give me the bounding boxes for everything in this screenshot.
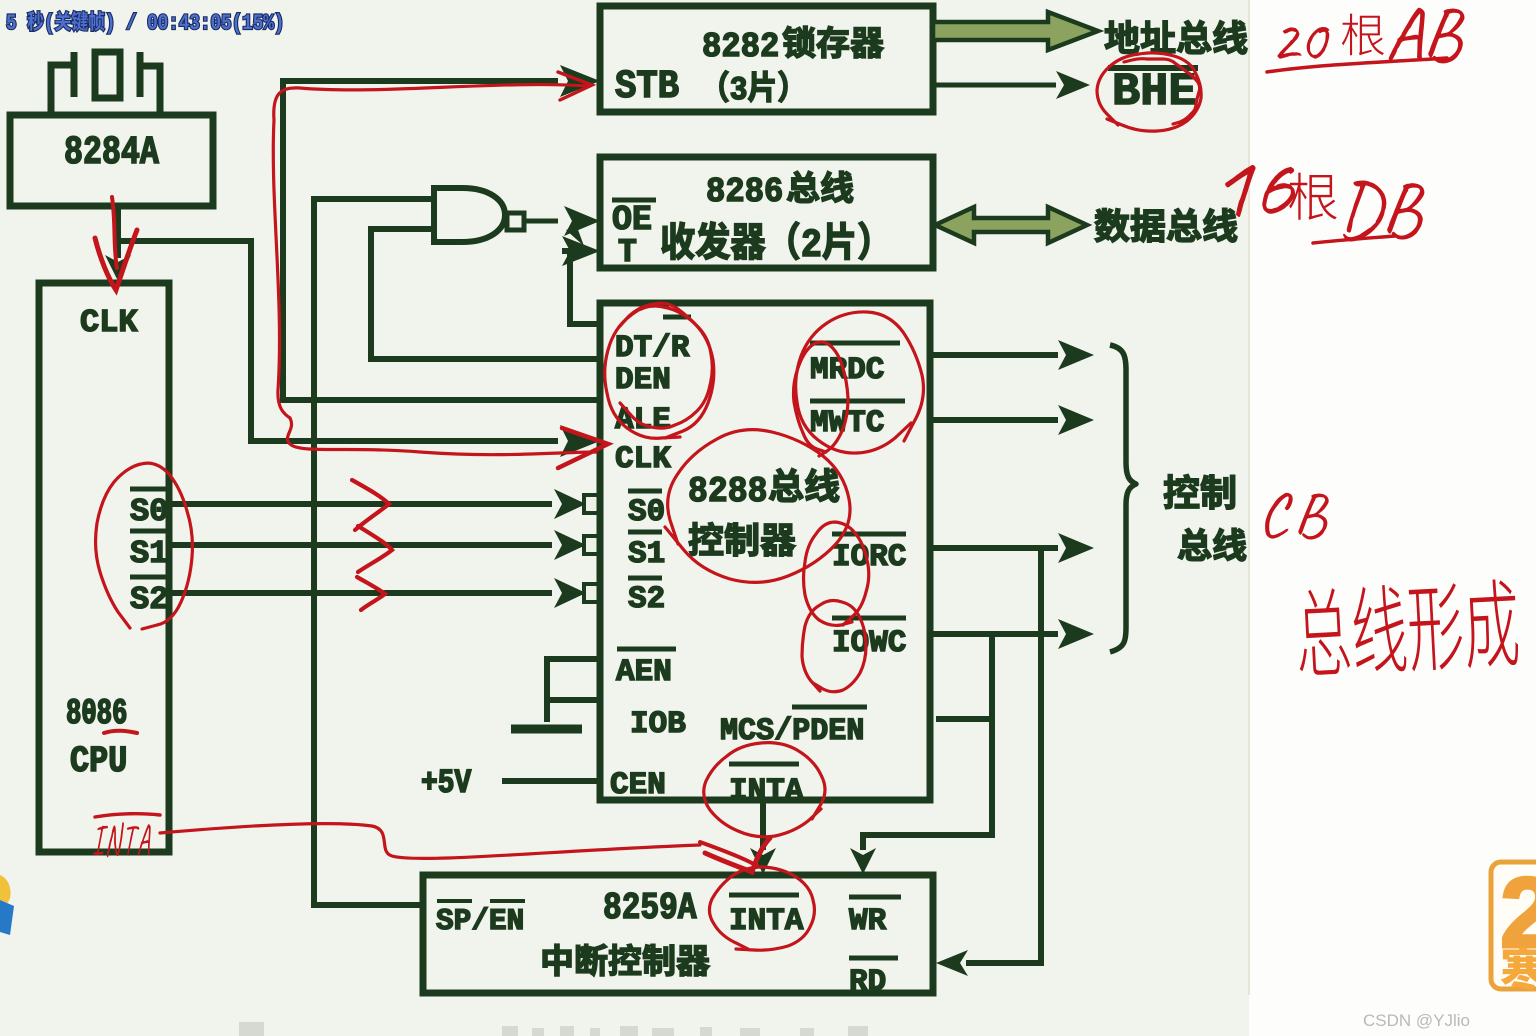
red circle CPU status pins bbox=[96, 463, 193, 629]
clock generator U1 8284A box bbox=[10, 115, 213, 206]
pin label S1 (8288) bbox=[628, 532, 664, 562]
red chevron S0 bbox=[352, 480, 389, 530]
label 8288总线 bbox=[690, 468, 839, 502]
wire DT/R to T bbox=[562, 227, 600, 324]
wire CLK net 8284A to 8288 CLK bbox=[118, 241, 600, 457]
red line INTA to arrow bbox=[160, 824, 700, 859]
wire S0 net bbox=[169, 489, 599, 519]
pin label S0 (CPU) bbox=[130, 489, 168, 520]
pin label S2 (8288) bbox=[628, 578, 663, 607]
red circle around BHE bbox=[1097, 53, 1201, 131]
label 8086 bbox=[67, 699, 126, 724]
pin label T bbox=[619, 239, 636, 261]
pin label SP/EN bbox=[437, 901, 526, 929]
label 收发器(2片) bbox=[662, 222, 869, 260]
wire gate output to OE bbox=[524, 206, 600, 236]
label 8286总线 bbox=[708, 171, 853, 203]
pin label INTA (8288) bbox=[729, 764, 803, 799]
wire IORC out bbox=[933, 533, 1094, 563]
label 中断控制器 bbox=[543, 944, 710, 976]
pin label DT/R bbox=[617, 317, 691, 356]
wire ALE to STB net bbox=[283, 65, 600, 400]
wire MCS/PDEN stub bbox=[936, 716, 992, 722]
AND gate U5 bbox=[434, 188, 524, 242]
pin label CLK (8288) bbox=[616, 446, 671, 467]
label CPU bbox=[71, 746, 125, 771]
transceiver U4 8286 box bbox=[600, 157, 933, 268]
CSDN watermark bbox=[1363, 1011, 1470, 1030]
latch U3 8282 box bbox=[600, 6, 933, 112]
pin label S0 (8288) bbox=[628, 491, 663, 520]
label BHE bbox=[1108, 68, 1198, 104]
label 8284A bbox=[66, 136, 159, 163]
wire INTA net bbox=[750, 800, 776, 874]
pin label INTA (8259) bbox=[729, 895, 803, 929]
address bus arrow bbox=[933, 12, 1098, 50]
pin label ALE bbox=[615, 408, 670, 428]
red chevron S1 bbox=[358, 526, 392, 572]
red circle IORC bbox=[804, 522, 869, 625]
label 控制 bbox=[1164, 474, 1235, 509]
red circle 8288 text bbox=[665, 430, 850, 583]
red underline 8086 bbox=[104, 731, 137, 733]
wire IOWC to WR bbox=[850, 634, 992, 874]
pin label MWTC bbox=[810, 401, 905, 431]
red circle DT/R DEN ALE bbox=[605, 303, 714, 438]
pin label S2 (CPU) bbox=[130, 577, 168, 608]
wire +5V to CEN bbox=[502, 778, 597, 784]
label (3片) bbox=[720, 71, 788, 103]
pin label MRDC bbox=[810, 343, 900, 378]
pin label IORC bbox=[832, 534, 906, 565]
red circle IOWC bbox=[802, 601, 866, 692]
wire IORC to RD bbox=[936, 548, 1041, 976]
label 数据总线 bbox=[1095, 208, 1237, 242]
pin label RD bbox=[849, 958, 898, 990]
orange logo box bbox=[1491, 862, 1536, 991]
pin label AEN bbox=[616, 649, 676, 680]
bottom caption remnant bbox=[239, 1022, 868, 1036]
red arrow 8284A to CPU bbox=[95, 197, 137, 290]
wire IOWC out bbox=[933, 619, 1094, 649]
pin label CEN bbox=[611, 772, 664, 793]
pin label CLK (CPU) bbox=[81, 310, 137, 332]
pin label IOB bbox=[632, 711, 685, 732]
pin label IOWC bbox=[832, 618, 906, 651]
wire S1 net bbox=[169, 530, 599, 560]
label 地址总线 bbox=[1105, 20, 1247, 54]
red arrow into CLK pin bbox=[558, 428, 608, 468]
red note 20根 AB bbox=[1267, 8, 1465, 72]
clock waveform symbol bbox=[51, 52, 160, 114]
pin label S1 (CPU) bbox=[130, 531, 168, 562]
label 8282锁存器 bbox=[704, 26, 884, 58]
wire S2 net bbox=[169, 578, 599, 608]
red chevron S2 bbox=[357, 577, 385, 610]
red circle INTA 8259 bbox=[709, 867, 814, 950]
label 8259A bbox=[605, 893, 697, 919]
data bus double arrow bbox=[935, 207, 1087, 243]
pin label OE bbox=[612, 200, 656, 229]
control bus brace bbox=[1110, 345, 1136, 652]
bottom-left colored fragment bbox=[0, 875, 14, 935]
wire IOB tie bbox=[547, 697, 600, 703]
pin label STB bbox=[616, 70, 679, 97]
wire SP/EN to gate input bbox=[314, 199, 434, 905]
label +5V bbox=[422, 770, 471, 793]
wire MRDC out bbox=[933, 340, 1094, 370]
red note 16根 DB bbox=[1225, 165, 1424, 243]
CPU U2 8086 box bbox=[39, 283, 169, 852]
wire BHE net bbox=[933, 71, 1090, 99]
video player caption bbox=[7, 11, 282, 33]
red INTA handwriting bbox=[93, 814, 160, 858]
red note CB bbox=[1265, 493, 1329, 540]
wire DEN to gate input bbox=[371, 229, 600, 359]
pin label MCS/PDEN bbox=[722, 707, 868, 739]
wire 8284A to CPU clock bbox=[105, 206, 131, 281]
wire AEN tie bbox=[547, 659, 600, 722]
red arrow to 8259 INTA bbox=[700, 838, 770, 872]
ground bar bbox=[511, 725, 582, 734]
svg-text:CSDN @YJlio: CSDN @YJlio bbox=[1363, 1011, 1470, 1030]
red circle INTA 8288 bbox=[704, 743, 825, 837]
label 控制器 bbox=[689, 522, 796, 556]
pin label DEN bbox=[617, 368, 669, 388]
pin label WR bbox=[849, 897, 901, 929]
red circle MRDC MWTC bbox=[794, 312, 924, 456]
wire MWTC out bbox=[933, 405, 1094, 435]
red note 总线形成 bbox=[1296, 578, 1519, 677]
red trace ALE-STB wire bbox=[273, 72, 596, 455]
bus controller U6 8288 box bbox=[600, 303, 930, 800]
interrupt controller U7 8259A box bbox=[423, 875, 933, 993]
label 总线 bbox=[1178, 528, 1246, 561]
